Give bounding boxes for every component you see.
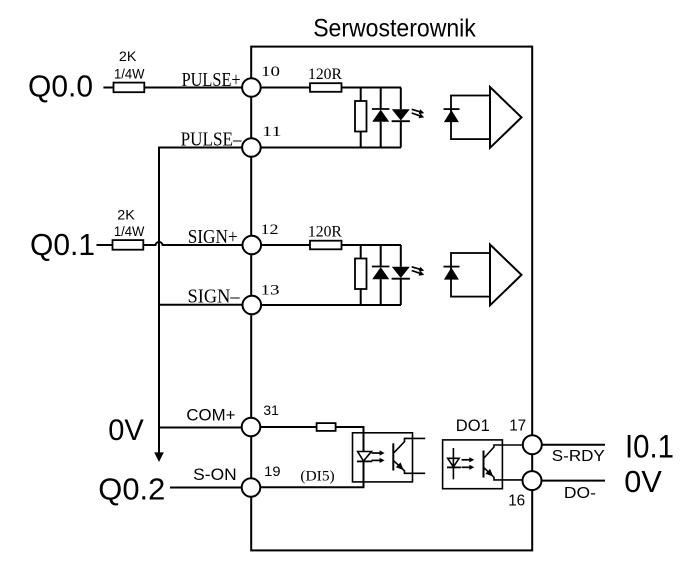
optocoupler U3 box [353, 433, 413, 482]
wire R1 to pin10 [144, 87, 251, 89]
wire pin31 to R3 [261, 426, 317, 428]
svg-text:16: 16 [508, 493, 525, 510]
photodiode D6 receiver ch2 [444, 267, 460, 280]
node pin13 [243, 296, 262, 315]
wire Q0.1 stub [97, 244, 113, 246]
wire U3 LED to pin19 [261, 461, 364, 487]
emitter arrowhead Q2 [485, 469, 493, 477]
LED D5 down ch2 [392, 245, 410, 305]
wire 120R to LED rail ch2 [342, 244, 402, 246]
svg-text:2K: 2K [117, 207, 135, 223]
resistor R1 2K 1/4W [114, 83, 145, 93]
receiver box ch1 [451, 96, 490, 140]
phototransistor Q1 collector [394, 438, 425, 452]
wire 0V to pin31 [159, 427, 251, 429]
wire SIGN- from pin13 [159, 304, 251, 306]
wire pin13 rail ch2 [261, 304, 401, 306]
svg-text:10: 10 [261, 64, 280, 80]
svg-text:1/4W: 1/4W [114, 67, 145, 82]
phototransistor Q2 collector to pin17 [484, 445, 522, 458]
phototransistor Q1 base [392, 443, 394, 470]
svg-text:I0.1: I0.1 [625, 429, 674, 465]
wire arrow to 0V [158, 428, 160, 453]
svg-text:(DI5): (DI5) [300, 469, 334, 485]
wire Q0.2 to pin19 [170, 487, 251, 489]
svg-text:COM+: COM+ [186, 406, 235, 425]
node pin12 [243, 236, 262, 255]
photodiode D3 receiver ch1 [444, 109, 460, 122]
buffer U2 triangle ch2 [490, 245, 522, 306]
resistor R2 2K 1/4W [113, 240, 144, 250]
svg-text:31: 31 [263, 402, 279, 418]
resistor 120R channel1 [310, 83, 342, 92]
light arrows U3 [372, 452, 382, 454]
LED D4 up ch2 [372, 245, 390, 305]
svg-text:2K: 2K [119, 48, 137, 64]
phototransistor Q1 emitter [394, 461, 425, 474]
LED U3 input triangle [358, 452, 372, 462]
svg-text:SIGN+: SIGN+ [188, 226, 238, 248]
resistor 120R channel2 [310, 241, 342, 250]
svg-text:Q0.1: Q0.1 [30, 227, 95, 262]
resistor vertical ch2 [355, 259, 367, 290]
resistor vertical ch1 [355, 101, 367, 132]
svg-text:13: 13 [261, 282, 280, 298]
wire pin12 to 120R ch2 [261, 244, 310, 246]
node pin31 [242, 418, 261, 437]
svg-text:19: 19 [264, 463, 281, 479]
LED U4 anode line [452, 448, 454, 479]
svg-text:0V: 0V [624, 464, 662, 499]
wire PULSE- from pin11 and vertical net [159, 148, 251, 428]
light emission arrows ch1 [412, 109, 421, 112]
svg-text:Q0.2: Q0.2 [98, 472, 165, 507]
svg-text:120R: 120R [308, 66, 343, 83]
enclosure box Serwosterownik [251, 47, 532, 551]
wire pin11 rail ch1 [261, 147, 401, 149]
svg-text:DO1: DO1 [456, 417, 490, 435]
svg-text:S-ON: S-ON [193, 465, 237, 484]
svg-text:12: 12 [261, 222, 279, 238]
wire pin10 to 120R [261, 87, 310, 89]
svg-text:17: 17 [509, 418, 526, 435]
resistor R3 [317, 423, 336, 431]
resistor vertical ch2 leads [360, 245, 362, 259]
svg-text:DO-: DO- [564, 485, 596, 502]
resistor vertical ch1 leads [360, 88, 362, 102]
svg-text:1/4W: 1/4W [114, 224, 145, 239]
wire 120R to LED rail ch1 [342, 87, 402, 89]
svg-text:Q0.0: Q0.0 [28, 69, 93, 104]
svg-text:S-RDY: S-RDY [552, 448, 605, 465]
node pin17 [523, 435, 542, 454]
LED U3 cathode bar [357, 460, 372, 462]
wire R2 to pin12 with hop over vertical [143, 242, 251, 245]
light arrows U4 [462, 459, 471, 461]
LED U4 triangle [448, 458, 459, 467]
node pin11 [242, 138, 261, 157]
arrowhead 0V [154, 452, 164, 462]
buffer U1 triangle ch1 [490, 87, 522, 148]
wire S-RDY from pin17 [542, 444, 605, 446]
svg-text:SIGN–: SIGN– [188, 285, 241, 307]
light emission arrows ch2 [412, 267, 421, 270]
LED U4 cathode bar [447, 466, 461, 468]
svg-text:0V: 0V [108, 414, 144, 447]
node pin16 [523, 471, 542, 490]
svg-text:PULSE+: PULSE+ [182, 69, 241, 91]
optocoupler U4 DO1 box [443, 440, 503, 489]
emitter arrowhead Q1 [396, 462, 404, 470]
svg-text:Serwosterownik: Serwosterownik [313, 14, 476, 42]
node pin19 [242, 478, 261, 497]
wire DO- from pin16 [542, 480, 605, 482]
phototransistor Q2 emitter to pin16 [484, 468, 522, 480]
receiver box ch2 [451, 253, 490, 297]
node pin10 [242, 78, 261, 97]
LED D1 up ch1 [372, 88, 390, 148]
wire Q0.0 stub [103, 87, 113, 89]
svg-text:PULSE–: PULSE– [181, 129, 243, 151]
LED D2 down ch1 [392, 88, 410, 148]
svg-text:120R: 120R [308, 224, 343, 241]
wire R3 to opto U3 LED [336, 427, 364, 452]
svg-text:11: 11 [262, 124, 282, 140]
phototransistor Q2 base [483, 451, 485, 478]
